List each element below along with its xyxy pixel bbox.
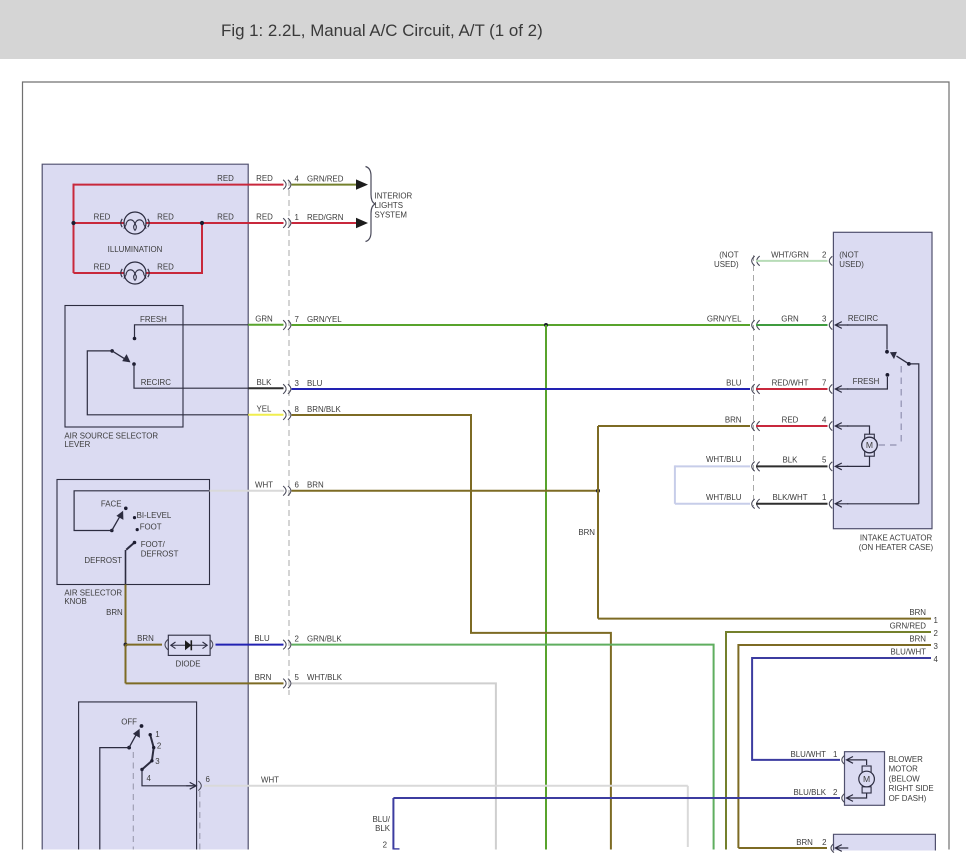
- svg-text:SYSTEM: SYSTEM: [375, 210, 407, 219]
- svg-text:BRN: BRN: [909, 608, 926, 617]
- svg-text:GRN/RED: GRN/RED: [307, 174, 344, 183]
- svg-text:RED: RED: [217, 174, 234, 183]
- svg-text:RECIRC: RECIRC: [848, 314, 879, 323]
- svg-text:2: 2: [822, 251, 826, 260]
- svg-text:USED): USED): [839, 260, 864, 269]
- svg-text:4: 4: [295, 174, 300, 183]
- svg-text:(BELOW: (BELOW: [889, 774, 921, 783]
- svg-text:RED/WHT: RED/WHT: [772, 379, 809, 388]
- svg-text:1: 1: [934, 616, 938, 625]
- svg-text:6: 6: [206, 775, 211, 784]
- svg-text:LIGHTS: LIGHTS: [375, 201, 404, 210]
- svg-text:WHT/BLU: WHT/BLU: [706, 455, 742, 464]
- svg-text:BLK: BLK: [257, 378, 273, 387]
- svg-text:GRN: GRN: [781, 315, 799, 324]
- svg-text:FRESH: FRESH: [853, 377, 880, 386]
- svg-text:RED: RED: [256, 174, 273, 183]
- svg-text:BRN: BRN: [796, 838, 813, 847]
- svg-text:1: 1: [295, 213, 299, 222]
- svg-text:4: 4: [934, 655, 939, 664]
- svg-text:RED: RED: [157, 213, 174, 222]
- svg-text:3: 3: [295, 379, 300, 388]
- svg-text:4: 4: [147, 774, 152, 783]
- svg-text:RED: RED: [94, 263, 111, 272]
- svg-text:GRN/RED: GRN/RED: [890, 622, 927, 631]
- svg-text:GRN/YEL: GRN/YEL: [307, 315, 342, 324]
- svg-text:WHT: WHT: [255, 480, 273, 489]
- svg-text:OF DASH): OF DASH): [889, 794, 927, 803]
- svg-text:3: 3: [822, 315, 827, 324]
- svg-text:BRN: BRN: [578, 528, 595, 537]
- svg-text:RED: RED: [782, 416, 799, 425]
- svg-text:BLU/BLK: BLU/BLK: [794, 788, 827, 797]
- svg-text:WHT: WHT: [261, 776, 279, 785]
- svg-text:DEFROST: DEFROST: [141, 549, 179, 558]
- svg-text:USED): USED): [714, 260, 739, 269]
- svg-text:DEFROST: DEFROST: [84, 556, 122, 565]
- svg-text:FACE: FACE: [101, 500, 122, 509]
- svg-text:RED: RED: [94, 213, 111, 222]
- svg-text:2: 2: [383, 841, 387, 850]
- svg-text:FOOT/: FOOT/: [141, 540, 166, 549]
- svg-text:WHT/GRN: WHT/GRN: [771, 251, 809, 260]
- svg-text:WHT/BLU: WHT/BLU: [706, 493, 742, 502]
- svg-text:2: 2: [934, 629, 938, 638]
- svg-text:BLU: BLU: [307, 379, 323, 388]
- svg-text:2: 2: [833, 788, 837, 797]
- svg-text:BRN/BLK: BRN/BLK: [307, 405, 342, 414]
- svg-text:BLU/: BLU/: [372, 815, 390, 824]
- svg-text:FRESH: FRESH: [140, 315, 167, 324]
- svg-text:BRN: BRN: [909, 635, 926, 644]
- svg-text:BRN: BRN: [106, 608, 123, 617]
- svg-text:INTAKE ACTUATOR: INTAKE ACTUATOR: [860, 534, 933, 543]
- svg-text:DIODE: DIODE: [176, 660, 201, 669]
- svg-text:RECIRC: RECIRC: [141, 378, 172, 387]
- svg-text:OFF: OFF: [121, 718, 137, 727]
- svg-text:(NOT: (NOT: [719, 251, 738, 260]
- svg-text:YEL: YEL: [257, 404, 273, 413]
- svg-text:BLU/WHT: BLU/WHT: [790, 750, 826, 759]
- svg-text:1: 1: [833, 750, 837, 759]
- svg-text:INTERIOR: INTERIOR: [375, 192, 413, 201]
- svg-text:2: 2: [822, 838, 826, 847]
- svg-text:4: 4: [822, 416, 827, 425]
- svg-text:M: M: [866, 440, 873, 450]
- svg-text:BLU: BLU: [726, 378, 742, 387]
- svg-text:8: 8: [295, 405, 300, 414]
- svg-text:5: 5: [822, 456, 827, 465]
- svg-text:BI-LEVEL: BI-LEVEL: [137, 511, 172, 520]
- svg-text:BLU/WHT: BLU/WHT: [890, 648, 926, 657]
- svg-text:1: 1: [822, 493, 826, 502]
- svg-text:BLK/WHT: BLK/WHT: [772, 493, 807, 502]
- svg-text:Fig 1: 2.2L, Manual A/C Circui: Fig 1: 2.2L, Manual A/C Circuit, A/T (1 …: [221, 21, 543, 40]
- svg-text:RED: RED: [217, 213, 234, 222]
- svg-text:(ON HEATER CASE): (ON HEATER CASE): [859, 543, 934, 552]
- svg-text:ILLUMINATION: ILLUMINATION: [108, 245, 163, 254]
- svg-text:3: 3: [155, 757, 160, 766]
- svg-text:1: 1: [155, 730, 159, 739]
- svg-text:2: 2: [295, 634, 299, 643]
- svg-text:BLK: BLK: [783, 456, 799, 465]
- svg-text:(NOT: (NOT: [839, 251, 858, 260]
- svg-text:RED: RED: [256, 213, 273, 222]
- svg-text:BRN: BRN: [255, 673, 272, 682]
- svg-text:GRN: GRN: [255, 314, 273, 323]
- svg-text:GRN/BLK: GRN/BLK: [307, 634, 342, 643]
- svg-text:BRN: BRN: [725, 415, 742, 424]
- svg-text:7: 7: [295, 315, 299, 324]
- svg-text:3: 3: [934, 642, 939, 651]
- svg-text:RED/GRN: RED/GRN: [307, 213, 344, 222]
- svg-text:LEVER: LEVER: [64, 440, 90, 449]
- svg-text:BLOWER: BLOWER: [889, 755, 923, 764]
- svg-text:GRN/YEL: GRN/YEL: [707, 314, 742, 323]
- svg-text:2: 2: [157, 742, 161, 751]
- svg-text:6: 6: [295, 481, 300, 490]
- svg-text:WHT/BLK: WHT/BLK: [307, 673, 343, 682]
- svg-text:FOOT: FOOT: [140, 522, 162, 531]
- svg-text:KNOB: KNOB: [64, 597, 86, 606]
- svg-text:BRN: BRN: [307, 481, 324, 490]
- svg-text:5: 5: [295, 673, 300, 682]
- svg-text:7: 7: [822, 379, 826, 388]
- svg-text:BRN: BRN: [137, 634, 154, 643]
- svg-text:M: M: [863, 774, 870, 784]
- svg-text:RED: RED: [157, 263, 174, 272]
- svg-text:BLU: BLU: [254, 634, 270, 643]
- svg-text:RIGHT SIDE: RIGHT SIDE: [889, 784, 934, 793]
- svg-text:MOTOR: MOTOR: [889, 765, 919, 774]
- svg-text:BLK: BLK: [375, 824, 391, 833]
